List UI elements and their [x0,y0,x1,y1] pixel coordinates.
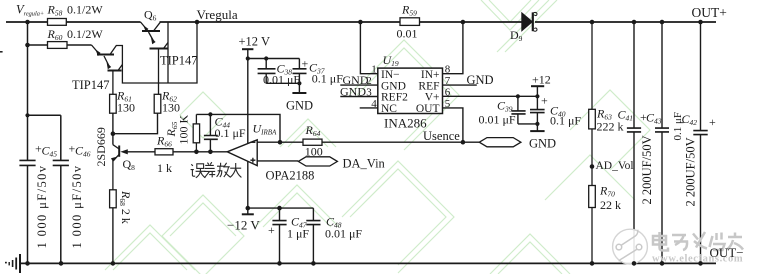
junction bottom rail / R68 [111,261,116,266]
capacitor C44 [204,114,218,151]
IC U19 INA286 body [378,68,443,113]
junction C46 branch [25,113,29,117]
transistor lower TIP147 darlington [92,22,198,94]
wire: C46 branch [28,115,61,263]
wire: op-amp inverting input to R64 [257,141,303,143]
diode D9 schottky [522,12,537,31]
capacitor C48 [306,208,320,263]
capacitor C39 [511,96,525,124]
junction bottom rail / C41 [632,261,637,266]
svg-text:2SD669: 2SD669 [94,127,108,166]
capacitor C47 [272,208,286,263]
junction bottom rail / C42 [698,261,703,266]
svg-text:IN−: IN− [381,69,400,81]
capacitor C46 [53,160,69,165]
wire: R68 to bottom rail [112,208,114,264]
wire: pin1 IN- to rail [360,22,377,74]
junction AD_Vol tap [590,164,595,169]
junction Vregula+ / R58-R60 branch [25,20,30,25]
transistor Q6 (TIP147 darlington) [141,22,169,94]
op-amp U_IRBA OPA2188 [227,140,257,166]
svg-text:IN+: IN+ [421,69,440,81]
junction bottom rail / C45 [25,261,30,266]
svg-text:130: 130 [117,101,135,115]
ground symbol bottom left [5,254,20,273]
capacitor C43 [655,22,669,263]
junction OUT+ / C43 [660,20,665,25]
wire: top rail D9 to OUT+ [535,21,716,23]
svg-text:0.1 μF: 0.1 μF [312,72,343,86]
svg-text:GND: GND [286,99,313,113]
svg-text:OUT+: OUT+ [692,5,727,20]
svg-text:1 000 μF/50v: 1 000 μF/50v [70,165,84,249]
wire: R66 to op-amp output [173,151,227,153]
svg-text:1 000 μF/50v: 1 000 μF/50v [35,165,49,249]
junction inverting input / feedback [278,140,283,145]
wire: top rail R58 to Q6 emitter [67,21,141,23]
grey watermark text dianzifashaoyou [653,232,743,251]
svg-text:OUT−: OUT− [710,245,744,260]
wire: top rail R59 to D9 [420,21,522,23]
svg-text:2 200UF/50V: 2 200UF/50V [640,135,654,204]
junction OUT+ / C42 [698,20,703,25]
ground symbol below C37/C38 [292,83,306,93]
wire: pin8 IN+ to rail [443,22,463,74]
wire: R64 to INA286 OUT node [322,141,479,143]
svg-text:0.01 μF: 0.01 μF [325,227,362,241]
capacitor C45 [19,160,35,165]
svg-text:1: 1 [371,64,377,76]
svg-text:INA286: INA286 [384,116,427,131]
junction feedback / C44 top [208,112,212,116]
power +12 right [531,86,544,96]
junction C39-C40 gnd node [535,122,539,126]
capacitor C42 [693,22,707,263]
power +12V op-amp supply [242,49,299,69]
wire: pin3 GND [340,96,378,98]
wire: top rail Q6 collector to R59 [160,21,401,23]
svg-text:GND: GND [381,80,406,92]
junction OUT+ / R63 [590,20,595,25]
wire: left edge stub [0,51,3,53]
svg-text:8: 8 [445,64,451,76]
svg-text:1 μF: 1 μF [287,227,309,241]
svg-text:0.01 μF: 0.01 μF [263,73,300,87]
svg-text:TIP147: TIP147 [160,54,198,68]
resistor R65 [193,114,199,151]
resistor R58 [48,19,67,26]
svg-text:222 k: 222 k [597,120,624,134]
green watermark pattern [105,0,650,274]
wire: op-amp V- down [247,162,249,209]
svg-text:0.1 μF: 0.1 μF [550,114,581,128]
svg-text:−12 V: −12 V [227,218,260,233]
junction bottom rail / C48 [311,261,316,266]
junction bottom rail / C43 [660,261,665,266]
wire: left column V_regula+ down [27,22,29,263]
svg-text:0.01 μF: 0.01 μF [479,113,516,127]
ground symbol below C39/C40 [530,124,544,131]
svg-text:+12 V: +12 V [239,35,270,49]
svg-text:22 k: 22 k [600,198,621,212]
svg-text:6: 6 [445,86,451,98]
svg-text:4: 4 [371,98,377,110]
wire: R62 bottom to node [113,113,158,134]
junction op-amp out / C44 [208,150,213,155]
svg-text:V+: V+ [425,92,440,104]
svg-text:REF: REF [418,80,439,92]
svg-text:Usence: Usence [423,129,460,143]
junction -12V / C47 [277,206,282,211]
resistor R66 [155,149,173,155]
svg-text:100: 100 [305,144,323,158]
wire: op-amp V+ from +12V [247,59,249,144]
resistor R64 [303,139,322,145]
junction Usence / INA286 OUT [461,140,466,145]
junction bottom rail / C47 [277,261,282,266]
wire: R60 branch [28,44,92,46]
svg-text:3: 3 [366,87,372,99]
svg-text:Vregula: Vregula [197,7,238,22]
junction +12V node [246,56,250,60]
svg-text:+12: +12 [532,73,551,87]
wire: pin6 V+ [443,95,538,97]
svg-text:1 k: 1 k [157,161,172,175]
junction Q8 collector node [111,131,116,136]
svg-text:DA_Vin: DA_Vin [343,156,386,170]
resistor R62 [154,94,161,113]
wire: bottom rail [20,262,717,264]
svg-text:+: + [541,94,548,108]
resistor R61 [110,94,117,113]
svg-text:+: + [709,115,716,129]
svg-text:+: + [302,57,309,71]
junction OUT+ / C41 [632,20,637,25]
svg-text:REF2: REF2 [381,92,408,104]
junction op-amp out / R65 [194,150,199,155]
wire: top rail left [6,21,48,23]
svg-text:R68 2 k: R68 2 k [118,190,133,224]
port hexagon DA_Vin [298,157,337,166]
junction rail / INA286 pin1 [358,20,363,25]
resistor R59 [400,18,420,26]
junction +12V / C38 [264,56,268,60]
wire: pin4 NC stub [360,107,378,109]
wire: R61 bottom to Q8 collector node [112,113,114,145]
svg-text:0.1/2W: 0.1/2W [67,3,103,17]
svg-text:130: 130 [162,101,180,115]
label 误差放大 [191,162,242,178]
junction bottom rail / C46 [59,261,64,266]
svg-text:GND: GND [340,84,366,98]
capacitor C40 [518,96,545,124]
svg-text:0.1/2W: 0.1/2W [67,27,103,41]
junction Vregula node [195,20,200,25]
junction rail / INA286 pin8 [461,20,466,25]
junction V+ / C39 [516,94,520,98]
junction bottom rail / R70 [590,261,595,266]
svg-text:AD_Vol: AD_Vol [596,160,634,172]
junction C37-C38 gnd node [297,81,301,85]
resistor R60 [48,42,68,49]
svg-text:2 200UF/50V: 2 200UF/50V [684,137,698,206]
svg-text:7: 7 [445,75,451,87]
transistor Q8 2SD669 [111,145,155,190]
resistor R63 [589,22,596,186]
svg-text:0.01: 0.01 [397,27,418,41]
resistor R68 [110,190,117,208]
svg-text:0.1 μF: 0.1 μF [215,126,246,140]
svg-text:5: 5 [445,98,451,110]
svg-text:100 K: 100 K [177,115,191,145]
wire: pin7 REF GND stub [443,84,477,86]
capacitor C38 [258,59,276,84]
svg-text:+: + [268,223,275,237]
power -12V [242,208,314,214]
wire: pin5 OUT down to Usence [443,108,463,142]
wire: pin2 GND [340,84,378,86]
wire: feedback top [196,114,280,142]
svg-text:OPA2188: OPA2188 [266,169,315,183]
junction Vregula+ / R60 [25,43,30,48]
svg-text:GND: GND [529,137,556,151]
svg-text:OUT: OUT [416,103,440,115]
wire: op-amp non-inverting input to DA_Vin [257,160,298,162]
port hexagon Usence [479,138,521,147]
junction V+ / C40 / +12 [535,94,539,98]
capacitor C37 [266,69,306,84]
svg-text:NC: NC [381,103,397,115]
svg-text:GND: GND [467,73,494,87]
capacitor C41 [627,22,641,263]
junction -12V node [246,206,251,211]
grey watermark logo [613,229,648,264]
resistor R70 [589,186,596,264]
svg-text:TIP147: TIP147 [72,78,110,92]
